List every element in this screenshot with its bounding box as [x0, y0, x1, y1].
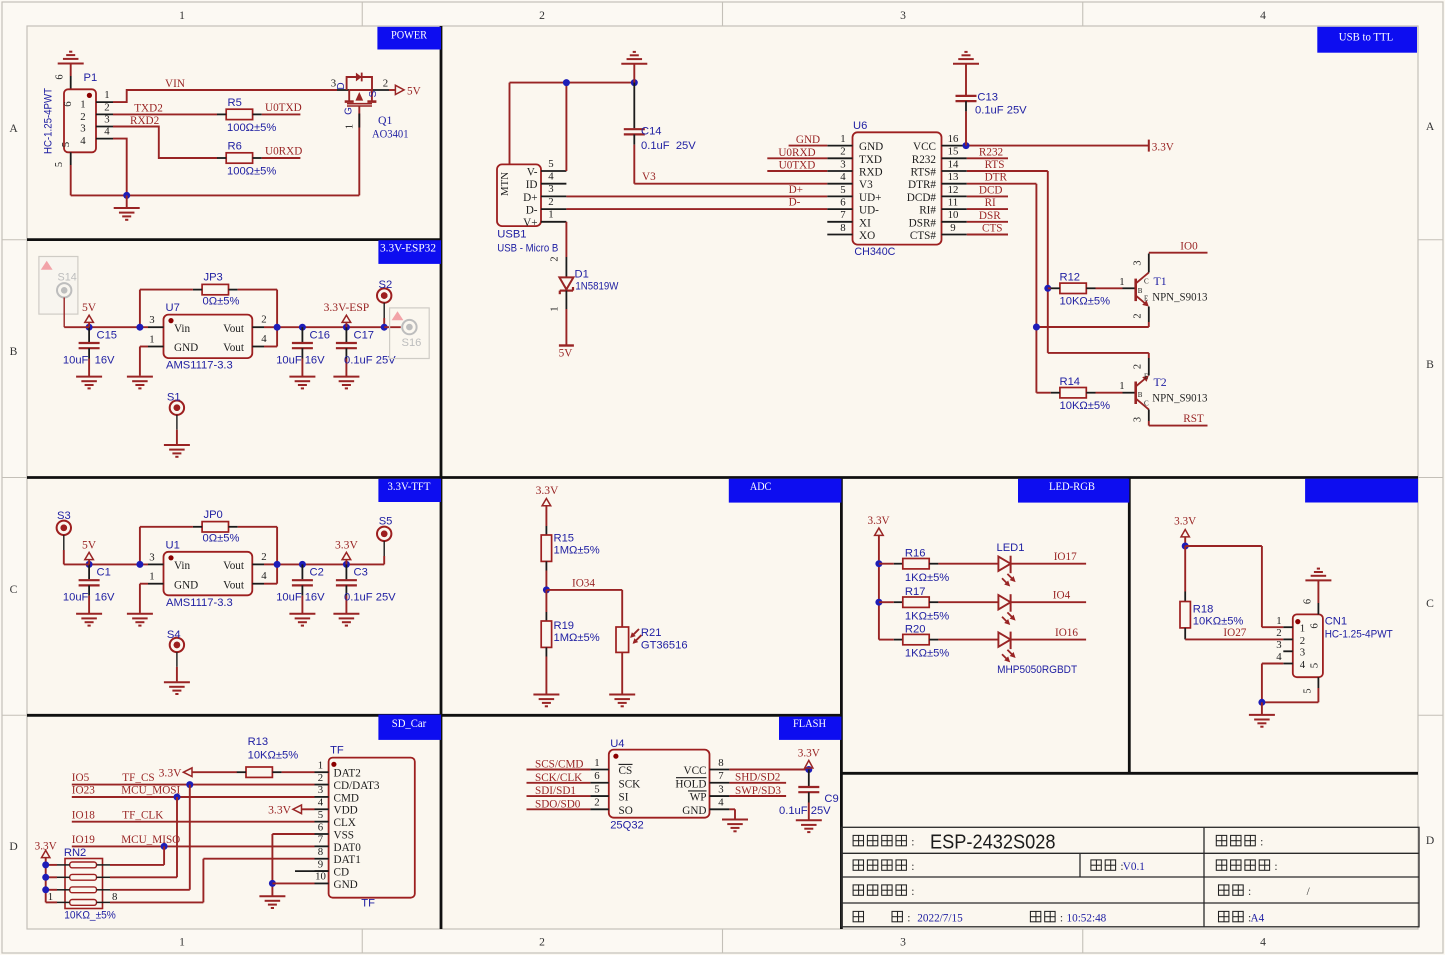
svg-text:R6: R6	[228, 141, 242, 153]
svg-text:R14: R14	[1060, 376, 1081, 388]
svg-text:25Q32: 25Q32	[610, 819, 644, 831]
svg-text:SHD/SD2: SHD/SD2	[735, 772, 780, 784]
svg-text:IO19: IO19	[72, 834, 95, 846]
svg-text:7: 7	[840, 209, 846, 221]
svg-text:GND: GND	[334, 879, 358, 891]
svg-text:VSS: VSS	[334, 829, 355, 841]
svg-text:3.3V-ESP32: 3.3V-ESP32	[380, 241, 436, 255]
svg-text:SWP/SD3: SWP/SD3	[735, 785, 781, 797]
svg-text:2: 2	[383, 78, 388, 90]
svg-text:100Ω±5%: 100Ω±5%	[227, 122, 276, 134]
svg-text:6: 6	[1309, 623, 1321, 629]
svg-text:3.3V: 3.3V	[159, 766, 182, 779]
svg-text:4: 4	[80, 135, 86, 147]
svg-text:POWER: POWER	[391, 28, 427, 42]
svg-text:1: 1	[550, 306, 561, 311]
svg-text:SCK: SCK	[619, 778, 641, 790]
svg-text:CD/DAT3: CD/DAT3	[334, 780, 380, 792]
svg-text:8: 8	[718, 757, 723, 769]
svg-text:SO: SO	[619, 805, 633, 817]
svg-text:4: 4	[718, 797, 724, 809]
svg-text:8: 8	[840, 222, 845, 234]
svg-text:1: 1	[840, 133, 845, 145]
svg-text:SDI/SD1: SDI/SD1	[535, 785, 576, 797]
svg-text:V3: V3	[859, 179, 873, 191]
svg-text:A: A	[9, 122, 18, 135]
svg-text:CLX: CLX	[334, 817, 356, 829]
svg-text:16: 16	[948, 133, 959, 145]
svg-text:S14: S14	[58, 272, 77, 284]
svg-text:T2: T2	[1154, 375, 1167, 389]
svg-text:DTR: DTR	[985, 172, 1008, 184]
svg-text:C: C	[1144, 400, 1149, 408]
svg-text:0.1uF 25V: 0.1uF 25V	[344, 592, 396, 604]
svg-text:B: B	[10, 345, 18, 358]
svg-text:10: 10	[315, 871, 326, 883]
svg-text:SI: SI	[619, 792, 629, 804]
svg-text:6: 6	[594, 770, 600, 782]
svg-text:RXD: RXD	[859, 167, 883, 179]
svg-text:C: C	[1144, 278, 1149, 286]
svg-text:4: 4	[1260, 9, 1266, 22]
svg-text:RI: RI	[985, 197, 996, 209]
svg-text:U0TXD: U0TXD	[265, 102, 302, 114]
svg-text:XO: XO	[859, 230, 875, 242]
svg-text:R12: R12	[1060, 272, 1081, 284]
svg-text:HC-1.25-4PWT: HC-1.25-4PWT	[42, 88, 54, 154]
svg-text:R18: R18	[1193, 603, 1214, 615]
svg-text:S: S	[368, 90, 379, 97]
svg-text:Vout: Vout	[223, 342, 245, 354]
svg-text:GND: GND	[174, 342, 198, 354]
svg-text:DSR#: DSR#	[909, 217, 937, 229]
svg-text::: :	[1274, 860, 1277, 873]
svg-text:16V: 16V	[305, 355, 325, 367]
svg-text:RXD2: RXD2	[130, 115, 159, 127]
svg-text:10:52:48: 10:52:48	[1067, 912, 1107, 924]
svg-text:6: 6	[1303, 599, 1314, 604]
svg-text:2: 2	[318, 772, 323, 784]
svg-text:4: 4	[840, 171, 846, 183]
svg-text:DTR#: DTR#	[908, 179, 936, 191]
svg-text:MTN: MTN	[499, 172, 511, 196]
svg-text:P1: P1	[84, 72, 98, 84]
svg-text:6: 6	[318, 821, 324, 833]
svg-text:S3: S3	[57, 510, 71, 522]
svg-text:RTS: RTS	[985, 159, 1005, 171]
svg-text:DCD: DCD	[979, 184, 1003, 196]
svg-text:R16: R16	[905, 548, 926, 560]
svg-text::: :	[907, 911, 910, 924]
svg-text:3: 3	[1133, 417, 1144, 422]
svg-text:6: 6	[62, 101, 74, 107]
svg-text:5V: 5V	[82, 301, 97, 314]
svg-text:R232: R232	[912, 154, 936, 166]
svg-text:C9: C9	[824, 793, 838, 805]
svg-text:V0.1: V0.1	[1123, 861, 1145, 873]
svg-text:10uF: 10uF	[276, 355, 302, 367]
svg-text:S2: S2	[379, 279, 393, 291]
svg-text:3.3V: 3.3V	[868, 515, 890, 527]
svg-text:VCC: VCC	[683, 765, 706, 777]
svg-text:6: 6	[55, 74, 66, 79]
svg-text:1KΩ±5%: 1KΩ±5%	[905, 572, 949, 584]
svg-text:3: 3	[840, 158, 845, 170]
svg-text:8: 8	[112, 891, 117, 903]
svg-text:3: 3	[149, 314, 154, 326]
svg-text:C2: C2	[310, 567, 324, 579]
svg-text:3.3V: 3.3V	[536, 484, 559, 497]
svg-text:2: 2	[840, 146, 845, 158]
svg-text:0.1uF 25V: 0.1uF 25V	[779, 805, 831, 817]
svg-text:1: 1	[594, 757, 599, 769]
svg-text:4: 4	[1260, 936, 1266, 949]
svg-text:B: B	[1138, 287, 1143, 295]
svg-text:14: 14	[948, 158, 959, 170]
svg-text:NPN_S9013: NPN_S9013	[1152, 391, 1207, 405]
svg-text:1: 1	[345, 124, 356, 129]
svg-text:10uF: 10uF	[276, 592, 302, 604]
svg-text:2: 2	[104, 101, 109, 113]
svg-text:D: D	[1426, 834, 1434, 847]
svg-text:5V: 5V	[559, 348, 573, 360]
svg-text:CH340C: CH340C	[854, 246, 895, 258]
svg-text:SCK/CLK: SCK/CLK	[535, 772, 582, 784]
svg-text:T1: T1	[1154, 274, 1167, 288]
svg-text:3.3V: 3.3V	[1174, 516, 1196, 528]
svg-text:3: 3	[80, 123, 85, 135]
svg-text:2022/7/15: 2022/7/15	[917, 912, 963, 924]
svg-text:D1: D1	[575, 269, 589, 281]
svg-text:D-: D-	[526, 205, 538, 217]
svg-text:CD: CD	[334, 866, 350, 878]
svg-text:GND: GND	[796, 134, 820, 146]
svg-text:AO3401: AO3401	[372, 127, 409, 141]
svg-text:R15: R15	[554, 533, 575, 545]
svg-text:8: 8	[318, 846, 323, 858]
svg-text:2: 2	[550, 256, 561, 261]
svg-text:B: B	[1138, 391, 1143, 399]
svg-text:VDD: VDD	[334, 805, 358, 817]
svg-text:R5: R5	[228, 97, 242, 109]
svg-text:0.1uF 25V: 0.1uF 25V	[641, 140, 696, 152]
svg-text:4: 4	[261, 333, 267, 345]
svg-text:E: E	[1144, 373, 1148, 381]
svg-text:ID: ID	[526, 179, 538, 191]
svg-text:3.3V: 3.3V	[335, 538, 358, 551]
svg-text:RI#: RI#	[919, 205, 936, 217]
svg-text:4: 4	[1300, 659, 1306, 671]
svg-text:RST: RST	[1183, 413, 1204, 425]
svg-text:10KΩ_±5%: 10KΩ_±5%	[64, 910, 116, 922]
svg-text:IO17: IO17	[1054, 551, 1077, 563]
svg-text:10KΩ±5%: 10KΩ±5%	[1193, 616, 1244, 628]
svg-text:GND: GND	[682, 805, 706, 817]
svg-text:C: C	[1426, 597, 1434, 610]
svg-text:2: 2	[539, 936, 545, 949]
svg-text:FLASH: FLASH	[793, 716, 826, 730]
svg-text:C17: C17	[354, 330, 375, 342]
svg-text:0.1uF 25V: 0.1uF 25V	[344, 355, 396, 367]
svg-text:USB - Micro B: USB - Micro B	[497, 243, 558, 255]
svg-text:16V: 16V	[305, 592, 325, 604]
svg-text:U1: U1	[166, 539, 180, 551]
svg-text:9: 9	[318, 858, 323, 870]
svg-text:1: 1	[80, 99, 85, 111]
svg-text:16V: 16V	[95, 592, 115, 604]
svg-text:DAT2: DAT2	[334, 768, 361, 780]
svg-text:DSR: DSR	[979, 210, 1001, 222]
svg-text:3: 3	[1276, 639, 1281, 651]
svg-text:1: 1	[1119, 276, 1124, 288]
svg-text:V+: V+	[523, 217, 537, 229]
svg-text:2: 2	[539, 9, 545, 22]
svg-text:3.3V: 3.3V	[1152, 141, 1174, 153]
svg-text:G: G	[344, 107, 355, 115]
svg-text:CS: CS	[619, 765, 633, 777]
svg-text:C15: C15	[97, 330, 118, 342]
svg-text:2: 2	[1133, 364, 1144, 369]
svg-text:10uF: 10uF	[63, 592, 89, 604]
svg-text:1: 1	[149, 334, 154, 346]
svg-text:1: 1	[1119, 380, 1124, 392]
svg-text:3: 3	[900, 936, 906, 949]
svg-text:5: 5	[1303, 688, 1314, 693]
svg-text:S4: S4	[167, 629, 181, 641]
svg-text:MHP5050RGBDT: MHP5050RGBDT	[997, 664, 1077, 676]
svg-text:DAT1: DAT1	[334, 854, 361, 866]
svg-text:V3: V3	[642, 171, 656, 183]
svg-text:C: C	[10, 583, 18, 596]
svg-text:0Ω±5%: 0Ω±5%	[203, 295, 240, 307]
svg-text:U4: U4	[610, 738, 624, 750]
svg-text:Vout: Vout	[223, 579, 245, 591]
svg-text:15: 15	[948, 146, 959, 158]
svg-text:0.1uF 25V: 0.1uF 25V	[975, 105, 1027, 117]
svg-text:Vin: Vin	[174, 560, 191, 572]
svg-text:1: 1	[179, 9, 185, 22]
svg-text:R20: R20	[905, 623, 926, 635]
svg-text:10: 10	[948, 209, 959, 221]
svg-text:NPN_S9013: NPN_S9013	[1152, 290, 1207, 304]
svg-text:0Ω±5%: 0Ω±5%	[203, 533, 240, 545]
svg-text:HOLD: HOLD	[675, 778, 706, 790]
svg-text:B: B	[1426, 358, 1434, 371]
svg-text:CTS: CTS	[982, 223, 1003, 235]
svg-text:2: 2	[261, 551, 266, 563]
svg-text:6: 6	[840, 197, 846, 209]
svg-text:TXD2: TXD2	[134, 103, 163, 115]
svg-text:2: 2	[1300, 635, 1305, 647]
svg-text:GND: GND	[859, 141, 883, 153]
svg-text:GND: GND	[174, 579, 198, 591]
svg-text:3: 3	[1300, 647, 1305, 659]
svg-text:IO0: IO0	[1180, 240, 1198, 252]
svg-text:4: 4	[261, 570, 267, 582]
svg-text:MCU_MISO: MCU_MISO	[121, 834, 180, 846]
svg-text:UD-: UD-	[859, 205, 879, 217]
svg-text:1: 1	[104, 89, 109, 101]
svg-text:R13: R13	[248, 736, 269, 748]
svg-text:V-: V-	[527, 166, 538, 178]
svg-text:1: 1	[179, 936, 185, 949]
svg-text:WP: WP	[690, 792, 707, 804]
svg-text:ESP-2432S028: ESP-2432S028	[930, 832, 1056, 854]
svg-text:U0TXD: U0TXD	[779, 160, 816, 172]
svg-text:1: 1	[1300, 623, 1305, 635]
svg-text:A: A	[1426, 120, 1435, 133]
svg-text:3: 3	[104, 114, 109, 126]
svg-text:5: 5	[60, 142, 72, 147]
svg-text:2: 2	[548, 196, 553, 208]
svg-text:1N5819W: 1N5819W	[575, 281, 618, 293]
svg-text:1KΩ±5%: 1KΩ±5%	[905, 610, 949, 622]
svg-text:VIN: VIN	[165, 78, 185, 90]
svg-text:2: 2	[1276, 627, 1281, 639]
svg-text:3: 3	[318, 784, 323, 796]
svg-text:R21: R21	[641, 627, 662, 639]
svg-text:TF_CS: TF_CS	[122, 772, 154, 784]
svg-text::: :	[911, 860, 914, 873]
svg-text:TF_CLK: TF_CLK	[122, 809, 163, 821]
svg-text:U0RXD: U0RXD	[265, 146, 302, 158]
svg-text:IO34: IO34	[572, 577, 595, 589]
svg-text:LED1: LED1	[997, 542, 1025, 554]
svg-text::: :	[911, 885, 914, 898]
svg-text:11: 11	[948, 197, 958, 209]
svg-text:5: 5	[840, 184, 845, 196]
svg-text::: :	[1060, 911, 1063, 924]
svg-text:DAT0: DAT0	[334, 842, 362, 854]
svg-text:100Ω±5%: 100Ω±5%	[227, 166, 276, 178]
svg-text:U6: U6	[853, 120, 867, 132]
svg-text:DCD#: DCD#	[907, 192, 937, 204]
svg-text:VCC: VCC	[913, 141, 936, 153]
svg-text::: :	[1248, 885, 1251, 898]
svg-text:SD_Car: SD_Car	[392, 716, 427, 730]
svg-text:Vout: Vout	[223, 560, 245, 572]
svg-text:C14: C14	[641, 126, 662, 138]
svg-text:ADC: ADC	[750, 479, 772, 493]
svg-text:1MΩ±5%: 1MΩ±5%	[554, 544, 600, 556]
svg-text:IO5: IO5	[72, 772, 90, 784]
svg-text:3.3V-ESP: 3.3V-ESP	[324, 301, 370, 314]
svg-text:R17: R17	[905, 586, 926, 598]
svg-text:USB to TTL: USB to TTL	[1339, 30, 1394, 44]
svg-text:4: 4	[1276, 651, 1282, 663]
svg-text:4: 4	[104, 126, 110, 138]
svg-text:16V: 16V	[95, 355, 115, 367]
svg-text:4: 4	[548, 171, 554, 183]
svg-text:Vout: Vout	[223, 323, 245, 335]
svg-text:IO4: IO4	[1053, 590, 1071, 602]
svg-text:JP0: JP0	[204, 509, 223, 521]
svg-text:4: 4	[318, 797, 324, 809]
svg-text:3: 3	[548, 183, 553, 195]
svg-text::: :	[1260, 835, 1263, 848]
svg-text:CTS#: CTS#	[910, 230, 937, 242]
svg-text:D: D	[336, 82, 347, 89]
svg-text:C16: C16	[310, 330, 331, 342]
svg-text:5: 5	[548, 158, 553, 170]
svg-text:5V: 5V	[407, 86, 421, 98]
svg-text:10KΩ±5%: 10KΩ±5%	[1060, 295, 1111, 307]
svg-text:S1: S1	[167, 392, 181, 404]
svg-text:5V: 5V	[82, 538, 97, 551]
svg-text:3.3V-TFT: 3.3V-TFT	[388, 479, 432, 493]
svg-text:TXD: TXD	[859, 154, 882, 166]
svg-text:2: 2	[80, 111, 85, 123]
svg-text:HC-1.25-4PWT: HC-1.25-4PWT	[1325, 629, 1393, 641]
svg-text:IO23: IO23	[72, 785, 95, 797]
svg-text:12: 12	[948, 184, 959, 196]
svg-text:S5: S5	[379, 516, 393, 528]
svg-text:D: D	[9, 840, 17, 853]
svg-text:IO16: IO16	[1055, 627, 1078, 639]
svg-text:CMD: CMD	[334, 792, 360, 804]
svg-text:D+: D+	[523, 192, 537, 204]
svg-text:A4: A4	[1251, 912, 1265, 924]
svg-text:2: 2	[594, 797, 599, 809]
svg-text:Vin: Vin	[174, 323, 191, 335]
svg-text:E: E	[1144, 295, 1148, 303]
svg-text::: :	[911, 835, 914, 848]
svg-text:2: 2	[261, 314, 266, 326]
svg-text:13: 13	[948, 171, 959, 183]
svg-text:AMS1117-3.3: AMS1117-3.3	[166, 360, 233, 372]
svg-text:1: 1	[149, 571, 154, 583]
svg-text:USB1: USB1	[497, 229, 526, 241]
svg-text:SCS/CMD: SCS/CMD	[535, 759, 584, 771]
svg-text:S16: S16	[402, 337, 422, 349]
svg-text:1KΩ±5%: 1KΩ±5%	[905, 648, 949, 660]
svg-text:10KΩ±5%: 10KΩ±5%	[248, 749, 299, 761]
svg-text:U7: U7	[166, 302, 180, 314]
svg-text:C13: C13	[977, 92, 998, 104]
svg-text:D+: D+	[789, 184, 803, 196]
svg-text:1: 1	[1276, 615, 1281, 627]
svg-text:2: 2	[1133, 313, 1144, 318]
svg-text:TF: TF	[361, 898, 375, 910]
svg-text:D-: D-	[789, 197, 801, 209]
svg-text:RN2: RN2	[64, 847, 86, 859]
svg-text:C3: C3	[354, 567, 368, 579]
svg-text:UD+: UD+	[859, 192, 881, 204]
svg-text:3: 3	[1133, 260, 1144, 265]
svg-text:XI: XI	[859, 217, 871, 229]
svg-text:1: 1	[548, 209, 553, 221]
svg-text:3: 3	[718, 783, 723, 795]
svg-text:5: 5	[594, 783, 599, 795]
svg-text:1: 1	[48, 891, 53, 903]
svg-text:R232: R232	[979, 146, 1003, 158]
svg-text:C1: C1	[97, 567, 111, 579]
svg-text:CN1: CN1	[1325, 616, 1347, 628]
svg-text:7: 7	[718, 770, 724, 782]
svg-text:JP3: JP3	[204, 272, 223, 284]
svg-text:LED-RGB: LED-RGB	[1049, 479, 1095, 493]
svg-text:Q1: Q1	[378, 113, 393, 127]
svg-text:5: 5	[54, 162, 65, 167]
svg-text:10uF: 10uF	[63, 355, 89, 367]
svg-text:IO18: IO18	[72, 809, 95, 821]
svg-text:10KΩ±5%: 10KΩ±5%	[1060, 400, 1111, 412]
svg-text:3: 3	[149, 551, 154, 563]
svg-text:GT36516: GT36516	[641, 639, 688, 651]
svg-text:3: 3	[331, 78, 336, 90]
svg-text:5: 5	[318, 809, 323, 821]
svg-text:TF: TF	[330, 745, 344, 757]
